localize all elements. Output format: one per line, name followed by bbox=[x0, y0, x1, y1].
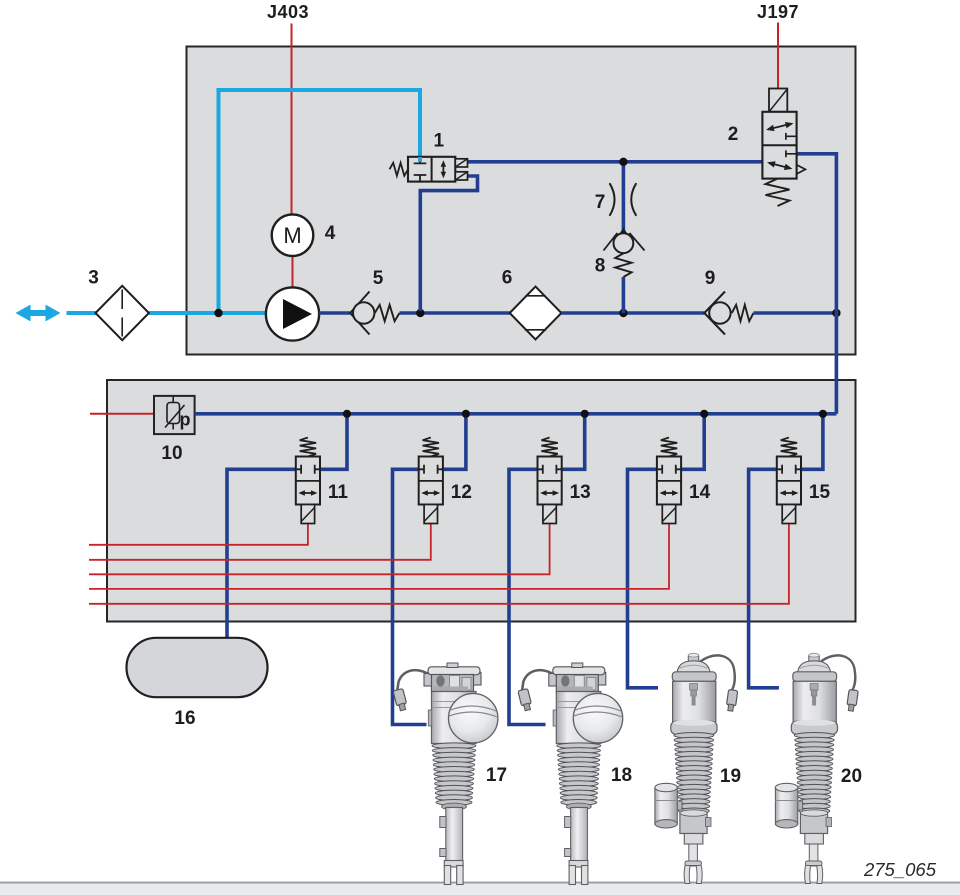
svg-text:10: 10 bbox=[161, 443, 182, 464]
line valve1 to valve2 bbox=[467, 160, 763, 164]
wire J197 to valve 2 solenoid bbox=[777, 23, 779, 90]
upper pneumatic unit box bbox=[187, 47, 856, 355]
footer band bbox=[0, 884, 960, 895]
lower valve block box bbox=[107, 380, 856, 622]
branch line lower bbox=[622, 277, 626, 313]
valve 15 outlet line bbox=[749, 469, 779, 688]
wire valve 13 bbox=[89, 524, 550, 575]
footer divider line bbox=[0, 882, 960, 884]
intake branch up and over to valve 1 bbox=[219, 90, 421, 313]
wire J403 to motor bbox=[291, 24, 293, 215]
branch line upper bbox=[622, 162, 626, 231]
node branch 7-8 bbox=[619, 309, 627, 317]
check valve 9 bbox=[704, 292, 753, 335]
pressure sensor 10 bbox=[154, 396, 195, 434]
solenoid valve 12 bbox=[419, 438, 443, 524]
wire valve 11 bbox=[89, 524, 308, 545]
svg-text:15: 15 bbox=[809, 482, 831, 503]
svg-text:11: 11 bbox=[328, 482, 349, 503]
valve 13 outlet line bbox=[509, 469, 546, 724]
wire motor to pump bbox=[292, 256, 294, 288]
node manifold 12 bbox=[462, 410, 470, 418]
intake line filter to pump bbox=[149, 311, 266, 315]
wire pressure sensor bbox=[90, 413, 154, 415]
svg-text:13: 13 bbox=[570, 482, 591, 503]
svg-text:7: 7 bbox=[595, 192, 606, 213]
svg-text:9: 9 bbox=[705, 268, 716, 289]
valve 12 outlet line bbox=[393, 469, 427, 724]
air spring strut 17 bbox=[393, 663, 498, 885]
solenoid valve 11 bbox=[296, 438, 320, 524]
line pump to check valve 5 bbox=[319, 311, 350, 315]
air dryer filter 3 bbox=[96, 286, 149, 340]
node right riser bbox=[832, 309, 840, 317]
motor M circle bbox=[272, 214, 314, 256]
svg-text:J197: J197 bbox=[757, 2, 799, 22]
compressor pump bbox=[266, 287, 319, 340]
intake line to filter bbox=[67, 311, 97, 315]
wire valve 14 bbox=[89, 524, 669, 589]
svg-text:20: 20 bbox=[841, 766, 862, 787]
check valve 8 bbox=[604, 228, 645, 277]
filter 6 bbox=[510, 287, 562, 340]
node manifold 14 bbox=[700, 410, 708, 418]
node valve 1 drop bbox=[416, 309, 424, 317]
valve 1 loop to main line bbox=[420, 176, 477, 311]
svg-text:p: p bbox=[180, 410, 191, 430]
node manifold 11 bbox=[343, 410, 351, 418]
svg-text:19: 19 bbox=[720, 766, 741, 787]
svg-text:275_065: 275_065 bbox=[863, 859, 937, 880]
air spring strut 18 bbox=[518, 663, 623, 885]
valve 11 outlet line bbox=[227, 469, 296, 638]
line 6 to check valve 9 bbox=[561, 311, 704, 315]
valve 14 supply riser bbox=[681, 414, 704, 470]
svg-text:4: 4 bbox=[325, 223, 336, 244]
solenoid valve 2 bbox=[762, 89, 805, 207]
solenoid valve 1 bbox=[390, 157, 468, 182]
solenoid valve 14 bbox=[657, 438, 681, 524]
svg-text:1: 1 bbox=[434, 131, 445, 152]
wire valve 15 bbox=[89, 524, 789, 604]
solenoid valve 13 bbox=[538, 438, 562, 524]
svg-text:2: 2 bbox=[728, 124, 739, 145]
air spring strut 19 bbox=[655, 653, 738, 883]
restrictor 7 arcs bbox=[610, 183, 637, 216]
svg-text:M: M bbox=[283, 223, 301, 248]
valve 14 outlet line bbox=[628, 469, 659, 688]
valve 11 supply riser bbox=[320, 414, 347, 470]
svg-text:6: 6 bbox=[502, 268, 513, 289]
svg-text:5: 5 bbox=[373, 268, 384, 289]
valve 15 supply riser bbox=[801, 414, 823, 470]
accumulator 16 bbox=[127, 638, 268, 697]
node manifold 15 bbox=[819, 410, 827, 418]
svg-text:18: 18 bbox=[611, 765, 632, 786]
solenoid valve 15 bbox=[777, 438, 801, 524]
svg-text:16: 16 bbox=[174, 708, 195, 729]
node valve1-valve2 line bbox=[619, 158, 627, 166]
line 9 to right riser bbox=[754, 311, 837, 315]
node intake branch bbox=[214, 309, 222, 317]
valve 13 supply riser bbox=[562, 414, 585, 470]
air spring strut 20 bbox=[775, 653, 858, 883]
svg-text:3: 3 bbox=[88, 268, 99, 289]
svg-text:14: 14 bbox=[689, 482, 711, 503]
wire valve 12 bbox=[89, 524, 431, 560]
svg-text:8: 8 bbox=[595, 256, 606, 277]
cyan inlet overlay valve 1 bbox=[418, 157, 422, 162]
svg-text:17: 17 bbox=[486, 765, 507, 786]
node manifold 13 bbox=[581, 410, 589, 418]
intake double arrow bbox=[16, 305, 61, 322]
svg-text:J403: J403 bbox=[267, 2, 309, 22]
line 5 to filter 6 bbox=[400, 311, 510, 315]
valve 2 outlet riser bbox=[797, 154, 837, 414]
valve 12 supply riser bbox=[443, 414, 466, 470]
check valve 5 bbox=[350, 292, 399, 335]
svg-text:12: 12 bbox=[451, 482, 472, 503]
manifold line bbox=[195, 412, 837, 416]
